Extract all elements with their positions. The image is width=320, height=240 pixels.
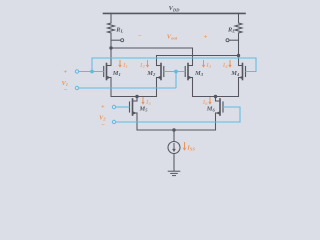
svg-text:−: − [101, 122, 105, 129]
svg-text:+: + [64, 69, 68, 76]
svg-text:−: − [64, 87, 68, 94]
svg-text:+: + [204, 33, 208, 40]
svg-text:−: − [138, 33, 142, 40]
svg-text:+: + [101, 104, 105, 111]
